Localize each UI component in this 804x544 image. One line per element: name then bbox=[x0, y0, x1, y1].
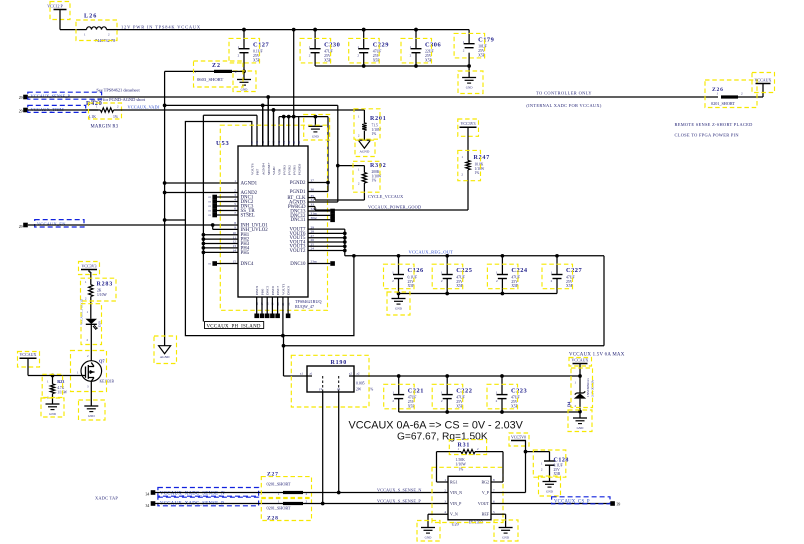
ground under D4 bbox=[568, 410, 592, 432]
wire V_N to ground bbox=[428, 514, 448, 527]
svg-text:GND: GND bbox=[425, 536, 432, 540]
svg-text:0.1UF: 0.1UF bbox=[408, 275, 418, 279]
ground under V_N bbox=[417, 521, 440, 542]
svg-text:PH6: PH6 bbox=[260, 289, 264, 295]
svg-text:12V PWR IN TPS84K VCCAUX: 12V PWR IN TPS84K VCCAUX bbox=[121, 25, 201, 30]
note VCCAUX 1.5V 6A MAX bbox=[569, 353, 625, 358]
node VCCAUX_PH_ISLAND label bbox=[205, 322, 264, 330]
svg-text:25V: 25V bbox=[478, 49, 485, 53]
wire PWRGD to R247 bbox=[308, 207, 468, 211]
svg-text:PGND2: PGND2 bbox=[290, 181, 306, 186]
note VCCAUX 0A-6A => CS bbox=[349, 420, 524, 432]
svg-text:34: 34 bbox=[146, 493, 150, 497]
wire RG1 loop bbox=[437, 452, 462, 482]
svg-text:GND: GND bbox=[577, 426, 584, 430]
wire R190 Z2 to output rail bbox=[354, 374, 580, 378]
wire VCC5V0 to V_P and C128 bbox=[491, 441, 550, 493]
wire PGND1 pin wire bbox=[308, 183, 328, 192]
svg-text:2: 2 bbox=[234, 189, 236, 193]
svg-text:GND: GND bbox=[312, 134, 319, 138]
svg-text:1.50K: 1.50K bbox=[456, 458, 466, 462]
svg-text:VCCAUX_PH_ISLAND: VCCAUX_PH_ISLAND bbox=[207, 324, 261, 329]
capacitor C221 bbox=[384, 376, 424, 409]
svg-text:1%: 1% bbox=[113, 115, 119, 119]
svg-text:VIN_N: VIN_N bbox=[450, 490, 462, 495]
wire C179 down bbox=[467, 53, 471, 68]
wire PVIN feed line B bbox=[279, 115, 328, 183]
ground under C126 bbox=[387, 292, 410, 315]
svg-text:VADJ: VADJ bbox=[272, 166, 276, 175]
off-page connector 29 VCCAUX_TRIM bbox=[19, 105, 86, 113]
net label VCCAUX_POWER_GOOD bbox=[368, 205, 421, 210]
ground AGND under R201 bbox=[355, 140, 375, 156]
svg-text:25V: 25V bbox=[253, 54, 260, 58]
svg-text:47UF: 47UF bbox=[511, 396, 520, 400]
svg-text:VCCAUX: VCCAUX bbox=[755, 77, 772, 82]
LED D29 power good bbox=[80, 298, 102, 360]
capacitor C223 bbox=[487, 376, 527, 409]
svg-text:z2: z2 bbox=[357, 372, 360, 376]
capacitor C225 bbox=[432, 254, 472, 294]
svg-text:PVIN2: PVIN2 bbox=[287, 165, 291, 175]
svg-text:R190: R190 bbox=[331, 360, 348, 366]
svg-text:REF: REF bbox=[482, 512, 490, 517]
capacitor C179 bbox=[454, 30, 494, 58]
svg-text:GND: GND bbox=[395, 307, 402, 311]
note See TPS84621 datasheet bbox=[91, 88, 146, 103]
svg-text:Z2: Z2 bbox=[212, 63, 221, 69]
svg-text:See TPS84621 datasheet: See TPS84621 datasheet bbox=[96, 88, 140, 93]
svg-text:U53: U53 bbox=[216, 140, 230, 147]
wire VCCAUX to Q7 gate bbox=[28, 358, 82, 377]
wire VCCAUX_VADJ line bbox=[116, 108, 364, 112]
svg-text:25V: 25V bbox=[566, 280, 573, 284]
wire AGND3 to AGND line bbox=[308, 201, 338, 203]
wire island to R190 Z1 bbox=[282, 336, 307, 376]
svg-text:INH_UVLO2: INH_UVLO2 bbox=[241, 228, 269, 233]
svg-text:VOUT1: VOUT1 bbox=[281, 283, 285, 295]
wire PH bus bbox=[202, 115, 204, 321]
svg-text:GND: GND bbox=[49, 412, 56, 416]
wire R190 Y1 down bbox=[321, 392, 325, 505]
svg-text:AGND1: AGND1 bbox=[241, 181, 258, 186]
svg-text:47UF: 47UF bbox=[324, 50, 333, 54]
wire AGND1 pin wire bbox=[163, 181, 238, 185]
wire VCCAUX_TRIM to R420 bbox=[28, 109, 98, 111]
svg-text:22UF: 22UF bbox=[425, 50, 434, 54]
capacitor C230 bbox=[300, 28, 340, 63]
wire VCCAUX_SENSE_P long sense line bbox=[28, 96, 718, 98]
svg-text:GND: GND bbox=[241, 88, 248, 92]
svg-text:VCCAUX_S_SENSE_N: VCCAUX_S_SENSE_N bbox=[377, 487, 422, 492]
resistor Z26 0201_SHORT bbox=[705, 80, 763, 108]
svg-text:z1: z1 bbox=[310, 372, 313, 376]
svg-text:25V: 25V bbox=[408, 280, 415, 284]
wire 12V drop to PVIN bbox=[293, 30, 295, 117]
svg-text:40: 40 bbox=[287, 141, 291, 145]
wire VOUT bus bbox=[343, 229, 347, 256]
wire XADC_SENSE_P row bbox=[154, 503, 285, 505]
resistor R283 2K bbox=[81, 270, 117, 319]
svg-text:10UF: 10UF bbox=[478, 45, 487, 49]
svg-text:0201_SHORT: 0201_SHORT bbox=[267, 482, 291, 487]
svg-text:R247: R247 bbox=[474, 155, 491, 161]
svg-text:PVIN3: PVIN3 bbox=[282, 165, 286, 175]
note MARGIN R3 bbox=[91, 125, 119, 130]
svg-text:1%: 1% bbox=[372, 179, 377, 183]
wire Q7 source to ground bbox=[79, 381, 106, 420]
wire C127 to Z2/GND junction bbox=[242, 53, 246, 74]
svg-text:GND: GND bbox=[466, 86, 473, 90]
svg-text:AGND: AGND bbox=[160, 355, 170, 359]
svg-text:25V: 25V bbox=[425, 54, 432, 58]
svg-text:1/10W: 1/10W bbox=[456, 463, 467, 467]
svg-text:C229: C229 bbox=[373, 41, 389, 48]
off-page connector 34 VCCAUX_XADC_SENSE_N bbox=[146, 488, 259, 497]
wire C222 to bottom rail bbox=[445, 399, 449, 414]
power flag VCC3V3 left bbox=[79, 262, 100, 275]
capacitor C229 bbox=[349, 28, 389, 63]
svg-text:VIN_P: VIN_P bbox=[450, 501, 462, 506]
svg-text:D29: D29 bbox=[98, 321, 102, 327]
svg-text:0.005: 0.005 bbox=[356, 382, 365, 386]
svg-text:GND: GND bbox=[502, 536, 509, 540]
wire C229 stub bbox=[362, 53, 366, 68]
transistor Q7 N-MOSFET bbox=[71, 351, 115, 392]
svg-text:GND: GND bbox=[88, 414, 95, 418]
svg-text:25V: 25V bbox=[408, 400, 415, 404]
svg-text:DNC10: DNC10 bbox=[290, 262, 306, 267]
svg-text:C179: C179 bbox=[478, 36, 494, 43]
resistor Z28 0201_SHORT bbox=[261, 499, 311, 522]
svg-text:DNC5: DNC5 bbox=[266, 286, 270, 295]
power flag VCC3V3 top right bbox=[458, 119, 479, 136]
capacitor C224 bbox=[487, 254, 528, 294]
wire AGND stub to island bbox=[163, 218, 186, 222]
svg-text:VCCAUX_CS_P: VCCAUX_CS_P bbox=[554, 500, 590, 505]
wire sense P to INA bbox=[300, 503, 448, 505]
svg-text:VCC3V3: VCC3V3 bbox=[81, 263, 96, 268]
svg-text:PH7: PH7 bbox=[256, 169, 260, 175]
op-amp U20 INA333 body bbox=[432, 467, 503, 526]
svg-text:XADC TAP: XADC TAP bbox=[95, 496, 118, 501]
net label VCCAUX_REG_OUT bbox=[409, 249, 454, 254]
off-page connector 39 VCCAUX_CS_P bbox=[552, 497, 621, 507]
wire REG_OUT down right side bbox=[284, 256, 605, 346]
text TPS84621RUQ package bbox=[295, 299, 322, 309]
off-page connector 34 VCCAUX_XADC_SENSE_P bbox=[146, 497, 259, 508]
capacitor C227 bbox=[542, 254, 583, 294]
svg-text:0201_SHORT: 0201_SHORT bbox=[711, 101, 735, 106]
svg-text:29: 29 bbox=[19, 110, 23, 114]
net label VCCAUX_S_SENSE_P bbox=[377, 498, 421, 503]
svg-text:R23: R23 bbox=[57, 379, 64, 384]
svg-text:47UF: 47UF bbox=[511, 275, 520, 279]
svg-text:CLOSE TO FPGA POWER PIN: CLOSE TO FPGA POWER PIN bbox=[675, 132, 740, 137]
svg-text:9: 9 bbox=[234, 226, 236, 230]
svg-text:R302: R302 bbox=[370, 163, 387, 169]
svg-text:38: 38 bbox=[297, 141, 301, 145]
svg-text:RG2: RG2 bbox=[481, 480, 489, 485]
svg-text:25V: 25V bbox=[511, 400, 518, 404]
svg-text:SENSE+: SENSE+ bbox=[267, 162, 271, 175]
svg-text:1%: 1% bbox=[372, 132, 377, 136]
ground symbol AGND arrow bottom bbox=[154, 336, 177, 364]
svg-text:1.1K: 1.1K bbox=[89, 115, 97, 119]
off-page connector 29 VCCAUX_SENSE_P bbox=[19, 92, 102, 100]
svg-text:RUQW_47: RUQW_47 bbox=[295, 304, 314, 309]
svg-text:C222: C222 bbox=[456, 387, 472, 394]
svg-text:46: 46 bbox=[255, 141, 259, 145]
wire bank1 bottom rail bbox=[397, 279, 557, 299]
U53 bottom pins bbox=[254, 283, 290, 337]
svg-text:y1: y1 bbox=[319, 387, 323, 391]
svg-text:PGND1: PGND1 bbox=[290, 190, 306, 195]
ground under C128 bbox=[539, 476, 561, 496]
note TO CONTROLLER ONLY bbox=[526, 90, 601, 108]
svg-text:47UF: 47UF bbox=[456, 396, 465, 400]
svg-text:RG1: RG1 bbox=[450, 480, 458, 485]
wire C306 stub bbox=[414, 53, 418, 68]
wire XADC_SENSE_N row bbox=[154, 492, 285, 494]
svg-text:z1: z1 bbox=[300, 372, 303, 376]
svg-text:47UF: 47UF bbox=[408, 396, 417, 400]
svg-text:MARGIN R3: MARGIN R3 bbox=[91, 125, 119, 130]
ground under C179 bbox=[458, 66, 483, 94]
svg-text:AGND4: AGND4 bbox=[261, 163, 265, 175]
wire AGND bus vertical bbox=[164, 71, 166, 345]
svg-text:29: 29 bbox=[19, 225, 23, 229]
resistor R247 10.0K bbox=[458, 127, 490, 210]
svg-text:(INTERNAL XADC FOR VCCAUX): (INTERNAL XADC FOR VCCAUX) bbox=[526, 103, 601, 108]
U53 right pins bbox=[287, 179, 344, 267]
wire AGND2 pin wire bbox=[163, 191, 238, 195]
svg-text:1/10W: 1/10W bbox=[97, 293, 107, 297]
capacitor C127 bbox=[229, 28, 270, 63]
svg-text:VIN: VIN bbox=[278, 168, 282, 175]
wire VCCAUX_EN to INH pins bbox=[28, 223, 238, 229]
svg-text:0201_SHORT: 0201_SHORT bbox=[267, 505, 291, 510]
svg-text:DNC9: DNC9 bbox=[255, 286, 259, 295]
power flag VCC12_P bbox=[47, 2, 70, 20]
svg-text:8: 8 bbox=[234, 221, 236, 225]
svg-text:C306: C306 bbox=[425, 41, 442, 48]
svg-text:L26: L26 bbox=[84, 13, 97, 20]
inductor L26 bbox=[76, 13, 117, 44]
wire PH feed line A bbox=[203, 115, 257, 146]
svg-text:DNC6: DNC6 bbox=[271, 286, 275, 295]
note REMOTE SENSE bbox=[675, 122, 753, 137]
svg-text:42: 42 bbox=[277, 141, 281, 145]
svg-text:29: 29 bbox=[19, 96, 23, 100]
svg-text:VCCAUX 0A-6A => CS = 0V - 2.03: VCCAUX 0A-6A => CS = 0V - 2.03V bbox=[349, 420, 524, 432]
svg-text:VCCAUX_REG_OUT: VCCAUX_REG_OUT bbox=[409, 249, 454, 254]
svg-text:VCCAUX: VCCAUX bbox=[20, 352, 37, 357]
ground under R23 bbox=[41, 398, 64, 417]
op-amp U53 TPS84621 body bbox=[216, 125, 328, 310]
svg-text:25V: 25V bbox=[324, 54, 331, 58]
svg-text:25V: 25V bbox=[456, 280, 463, 284]
svg-text:R201: R201 bbox=[370, 116, 387, 122]
svg-text:VOUT6: VOUT6 bbox=[250, 163, 254, 175]
U20 pin labels bbox=[444, 478, 495, 517]
svg-text:CYCLE_VCCAUX: CYCLE_VCCAUX bbox=[368, 194, 403, 199]
U53 top pins VOUT6 PH7 AGND4 SENSE+ VADJ VIN PVIN3 PVIN2 PVIN1 PGND3 bbox=[250, 95, 301, 175]
wire PGND2 pin wire bbox=[308, 181, 330, 185]
svg-text:VCCAUX_POWER_GOOD: VCCAUX_POWER_GOOD bbox=[368, 205, 421, 210]
wire RG2 loop bbox=[475, 452, 503, 482]
wire VCC12 to L26 bbox=[60, 10, 80, 30]
svg-text:X5R: X5R bbox=[554, 472, 561, 476]
svg-text:C227: C227 bbox=[566, 267, 583, 274]
off-page connector 29 VCCAUX_EN bbox=[19, 220, 84, 229]
wire 12V rail bbox=[117, 29, 469, 31]
svg-text:TO CONTROLLER ONLY: TO CONTROLLER ONLY bbox=[536, 90, 592, 95]
svg-text:1%: 1% bbox=[475, 171, 480, 175]
svg-text:VOUT: VOUT bbox=[478, 501, 490, 506]
wire R190 Y2 down bbox=[337, 392, 341, 494]
svg-text:VCCAUX_S_SENSE_P: VCCAUX_S_SENSE_P bbox=[377, 498, 421, 503]
svg-text:C223: C223 bbox=[511, 387, 527, 394]
diode D4 zener 1N5339BRLG bbox=[566, 364, 594, 414]
wire bank2 bottom rail bbox=[399, 411, 580, 413]
svg-text:Q7: Q7 bbox=[99, 359, 105, 364]
svg-text:DNC7: DNC7 bbox=[276, 286, 280, 295]
resistor R23 4.7K bbox=[42, 374, 67, 404]
net label 12V PWR IN TPS84K VCCAUX bbox=[121, 25, 201, 30]
net label VCCAUX_VADJ bbox=[128, 105, 160, 110]
svg-text:VCCAUX_SENSE_P: VCCAUX_SENSE_P bbox=[31, 94, 71, 99]
svg-text:C126: C126 bbox=[408, 267, 425, 274]
svg-text:DNC8: DNC8 bbox=[287, 286, 291, 295]
resistor Z2 0603_SHORT bbox=[165, 61, 244, 87]
svg-text:C127: C127 bbox=[253, 41, 270, 48]
svg-text:1%: 1% bbox=[459, 468, 464, 472]
capacitor C126 bbox=[384, 254, 425, 289]
svg-text:C224: C224 bbox=[511, 267, 528, 274]
svg-text:39: 39 bbox=[617, 503, 621, 507]
capacitor C306 bbox=[401, 28, 442, 63]
svg-text:0603_SHORT: 0603_SHORT bbox=[197, 77, 223, 82]
resistor R302 200K bbox=[353, 161, 387, 200]
svg-text:25V: 25V bbox=[373, 54, 380, 58]
svg-text:25V: 25V bbox=[511, 280, 518, 284]
resistor R31 1.50K bbox=[449, 440, 486, 472]
svg-text:R31: R31 bbox=[458, 443, 471, 449]
net label VCCAUX_S_SENSE_N bbox=[377, 487, 422, 492]
svg-text:47UF: 47UF bbox=[373, 50, 382, 54]
ground under REF bbox=[494, 520, 518, 541]
svg-text:41: 41 bbox=[282, 141, 286, 145]
wire C223 to bottom rail bbox=[500, 399, 504, 414]
svg-text:R283: R283 bbox=[97, 282, 114, 288]
wire REF to ground bbox=[491, 514, 506, 527]
svg-text:0.1UF: 0.1UF bbox=[253, 50, 263, 54]
capacitor C222 bbox=[432, 376, 472, 409]
svg-text:C225: C225 bbox=[456, 267, 472, 274]
wire sense N to INA bbox=[300, 492, 448, 494]
resistor R190 0.005 current sense bbox=[291, 355, 373, 407]
power flag VCCAUX top right bbox=[752, 73, 775, 98]
resistor R420 1.1K bbox=[86, 101, 122, 119]
svg-text:REMOTE SENSE Z-SHORT PLACED: REMOTE SENSE Z-SHORT PLACED bbox=[675, 122, 753, 127]
svg-text:1N5339BRLG: 1N5339BRLG bbox=[586, 378, 590, 397]
svg-text:1: 1 bbox=[278, 492, 280, 496]
svg-text:39: 39 bbox=[292, 141, 296, 145]
capacitor C128 bbox=[533, 450, 569, 482]
svg-text:47: 47 bbox=[250, 141, 254, 145]
svg-text:PH5: PH5 bbox=[241, 251, 250, 256]
svg-text:VCC5V0: VCC5V0 bbox=[511, 434, 526, 439]
svg-text:C221: C221 bbox=[408, 387, 424, 394]
power flag VCCAUX output bbox=[569, 357, 592, 366]
wire C230 down to bottom rail bbox=[314, 53, 316, 66]
svg-text:GND: GND bbox=[546, 490, 553, 494]
svg-text:STSEL: STSEL bbox=[241, 213, 255, 218]
junction dots on 12V rail bbox=[242, 28, 418, 32]
svg-text:DNC11: DNC11 bbox=[290, 218, 306, 223]
svg-text:DNC4: DNC4 bbox=[241, 262, 254, 267]
svg-text:G=67.67, Rg=1.50K: G=67.67, Rg=1.50K bbox=[397, 432, 488, 443]
resistor Z27 0201_SHORT bbox=[261, 472, 311, 498]
svg-text:1: 1 bbox=[234, 179, 236, 183]
svg-text:2W: 2W bbox=[356, 388, 362, 392]
svg-text:47UF: 47UF bbox=[456, 275, 465, 279]
ground on PVIN feed bbox=[304, 115, 330, 141]
net label CYCLE_VCCAUX bbox=[368, 194, 403, 199]
wire C221 to bottom rail bbox=[398, 399, 400, 412]
svg-text:PGND3: PGND3 bbox=[297, 163, 301, 175]
wire AGND branch to R302 area bbox=[163, 104, 365, 202]
U53 left pins bbox=[202, 179, 269, 267]
wire VCCAUX_REG_OUT rail bbox=[345, 255, 604, 257]
svg-text:V_N: V_N bbox=[450, 512, 458, 517]
svg-text:C230: C230 bbox=[324, 41, 340, 48]
wire VOUT to connector 39 bbox=[491, 503, 610, 505]
note G=67.67 Rg=1.50K bbox=[397, 432, 488, 443]
svg-text:AGND: AGND bbox=[360, 150, 370, 154]
svg-text:V_P: V_P bbox=[482, 490, 490, 495]
svg-text:PVIN1: PVIN1 bbox=[292, 165, 296, 175]
svg-text:1: 1 bbox=[278, 500, 280, 504]
svg-text:z2: z2 bbox=[349, 372, 352, 376]
ground under C127 bbox=[233, 71, 256, 92]
note XADC TAP bbox=[95, 496, 118, 501]
wire bank0 bottom rail bbox=[315, 65, 469, 67]
node VCCAUX_PH_ISLAND outline bbox=[185, 122, 355, 336]
resistor R201 71.5 bbox=[354, 109, 387, 140]
power flag VCC5V0 bbox=[509, 433, 529, 446]
svg-text:VOUT2: VOUT2 bbox=[289, 249, 306, 254]
wire RT_CLK to R302 bbox=[308, 198, 364, 200]
power flag VCCAUX left bbox=[18, 352, 40, 368]
svg-text:VCC3V3: VCC3V3 bbox=[460, 121, 475, 126]
svg-text:25V: 25V bbox=[456, 400, 463, 404]
svg-text:47UF: 47UF bbox=[566, 275, 575, 279]
svg-text:VCCAUX_VADJ: VCCAUX_VADJ bbox=[128, 105, 160, 110]
svg-text:34: 34 bbox=[146, 504, 150, 508]
